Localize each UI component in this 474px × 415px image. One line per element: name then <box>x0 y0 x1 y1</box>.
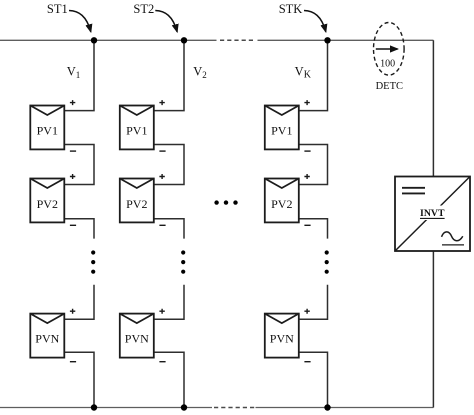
inverter DC symbol <box>402 188 425 194</box>
minus label of PVN string 1 <box>70 361 76 363</box>
wire bottom bus left segment <box>0 407 212 409</box>
wire string 2: PV1 - to PV2 + <box>154 145 184 185</box>
wire string 1: PV2 - down to break <box>64 219 94 239</box>
plus label of PV1 string 3 <box>304 100 309 105</box>
minus label of PV1 string 1 <box>70 150 76 152</box>
PV module PV1 of string 1 <box>30 106 64 150</box>
svg-text:INVT: INVT <box>420 208 445 219</box>
PV module PVN of string 1 <box>30 314 64 358</box>
svg-text:PVN: PVN <box>125 331 149 345</box>
PV module PVN of string 3 <box>265 314 299 358</box>
plus label of PVN string 1 <box>70 309 75 314</box>
PV module PV2 of string 1 <box>30 179 64 223</box>
inverter diagonal <box>395 177 470 252</box>
inverter INVT box <box>395 177 470 252</box>
svg-text:STK: STK <box>279 2 303 16</box>
junction dot STK top bus <box>324 37 330 43</box>
arrow from STK to junction <box>304 11 326 32</box>
DETC sensor dashed ellipse 100 <box>374 23 405 76</box>
plus label of PV1 string 1 <box>70 100 75 105</box>
junction dot string 3 bottom bus <box>324 404 330 410</box>
wire string 1: PV1 - to PV2 + <box>64 145 94 185</box>
current direction arrow inside DETC <box>376 48 398 50</box>
minus label of PV1 string 3 <box>304 150 310 152</box>
inverter AC sine symbol <box>442 232 463 241</box>
label INVT <box>418 206 448 221</box>
plus label of PVN string 3 <box>304 309 309 314</box>
minus label of PVN string 2 <box>159 361 165 363</box>
svg-text:PV1: PV1 <box>126 123 147 137</box>
junction dot string 1 bottom bus <box>91 404 97 410</box>
plus label of PV1 string 2 <box>159 100 164 105</box>
svg-text:PV1: PV1 <box>37 123 58 137</box>
wire bottom bus right segment to corner <box>256 407 434 409</box>
svg-text:PVN: PVN <box>270 331 294 345</box>
PV module PV2 of string 2 <box>120 179 154 223</box>
plus label of PV2 string 1 <box>70 174 75 179</box>
arrow from ST1 to junction <box>69 11 91 32</box>
string 3 vertical ellipsis dots <box>325 250 329 273</box>
junction dot string 2 bottom bus <box>181 404 187 410</box>
PV module PV2 of string 3 <box>265 179 299 223</box>
svg-text:PV2: PV2 <box>271 197 292 211</box>
inverter INVT underline <box>420 217 445 219</box>
minus label of PV2 string 1 <box>70 224 76 226</box>
wire string 3: PVN - to bottom bus <box>299 352 328 407</box>
svg-text:ST1: ST1 <box>47 2 68 16</box>
string 2 vertical ellipsis dots <box>181 250 185 273</box>
plus label of PV2 string 3 <box>304 174 309 179</box>
svg-text:100: 100 <box>380 58 395 69</box>
svg-text:PV1: PV1 <box>271 123 292 137</box>
minus label of PV2 string 2 <box>159 224 165 226</box>
minus label of PV2 string 3 <box>304 224 310 226</box>
wire string 2: PVN - to bottom bus <box>154 352 184 407</box>
wire top bus dashed continuation segment <box>220 39 254 41</box>
PV module PVN of string 2 <box>120 314 154 358</box>
wire right side: top corner down to inverter input <box>432 40 434 176</box>
horizontal ellipsis between string 2 and string K <box>214 200 237 204</box>
plus label of PVN string 2 <box>159 309 164 314</box>
wire string 3: top bus to PV1 + terminal <box>299 40 328 110</box>
wire right side: inverter output down to bottom corner <box>432 251 434 408</box>
plus label of PV2 string 2 <box>159 174 164 179</box>
arrow from ST2 to junction <box>155 11 177 32</box>
wire string 3: break to PVN + <box>299 285 328 320</box>
svg-text:PVN: PVN <box>35 331 59 345</box>
svg-text:ST2: ST2 <box>133 2 154 16</box>
svg-text:PV2: PV2 <box>126 197 147 211</box>
minus label of PVN string 3 <box>304 361 310 363</box>
wire string 2: PV2 - down to break <box>154 219 184 239</box>
string 1 vertical ellipsis dots <box>91 250 95 273</box>
wire string 2: break to PVN + <box>154 285 184 320</box>
wire top bus right segment to corner <box>258 39 434 41</box>
junction dot ST2 top bus <box>181 37 187 43</box>
wire bottom bus dashed continuation segment <box>214 407 256 409</box>
PV module PV1 of string 3 <box>265 106 299 150</box>
wire string 1: top bus to PV1 + terminal <box>64 40 94 110</box>
wire top bus left segment <box>0 39 217 41</box>
wire string 3: PV1 - to PV2 + <box>299 145 328 185</box>
minus label of PV1 string 2 <box>159 150 165 152</box>
wire string 2: top bus to PV1 + terminal <box>154 40 184 110</box>
svg-text:PV2: PV2 <box>37 197 58 211</box>
junction dot ST1 top bus <box>91 37 97 43</box>
PV module PV1 of string 2 <box>120 106 154 150</box>
wire string 3: PV2 - down to break <box>299 219 328 239</box>
wire string 1: break to PVN + <box>64 285 94 320</box>
inverter AC underline <box>442 244 464 246</box>
wire string 1: PVN - to bottom bus <box>64 352 94 407</box>
svg-text:DETC: DETC <box>376 81 403 92</box>
